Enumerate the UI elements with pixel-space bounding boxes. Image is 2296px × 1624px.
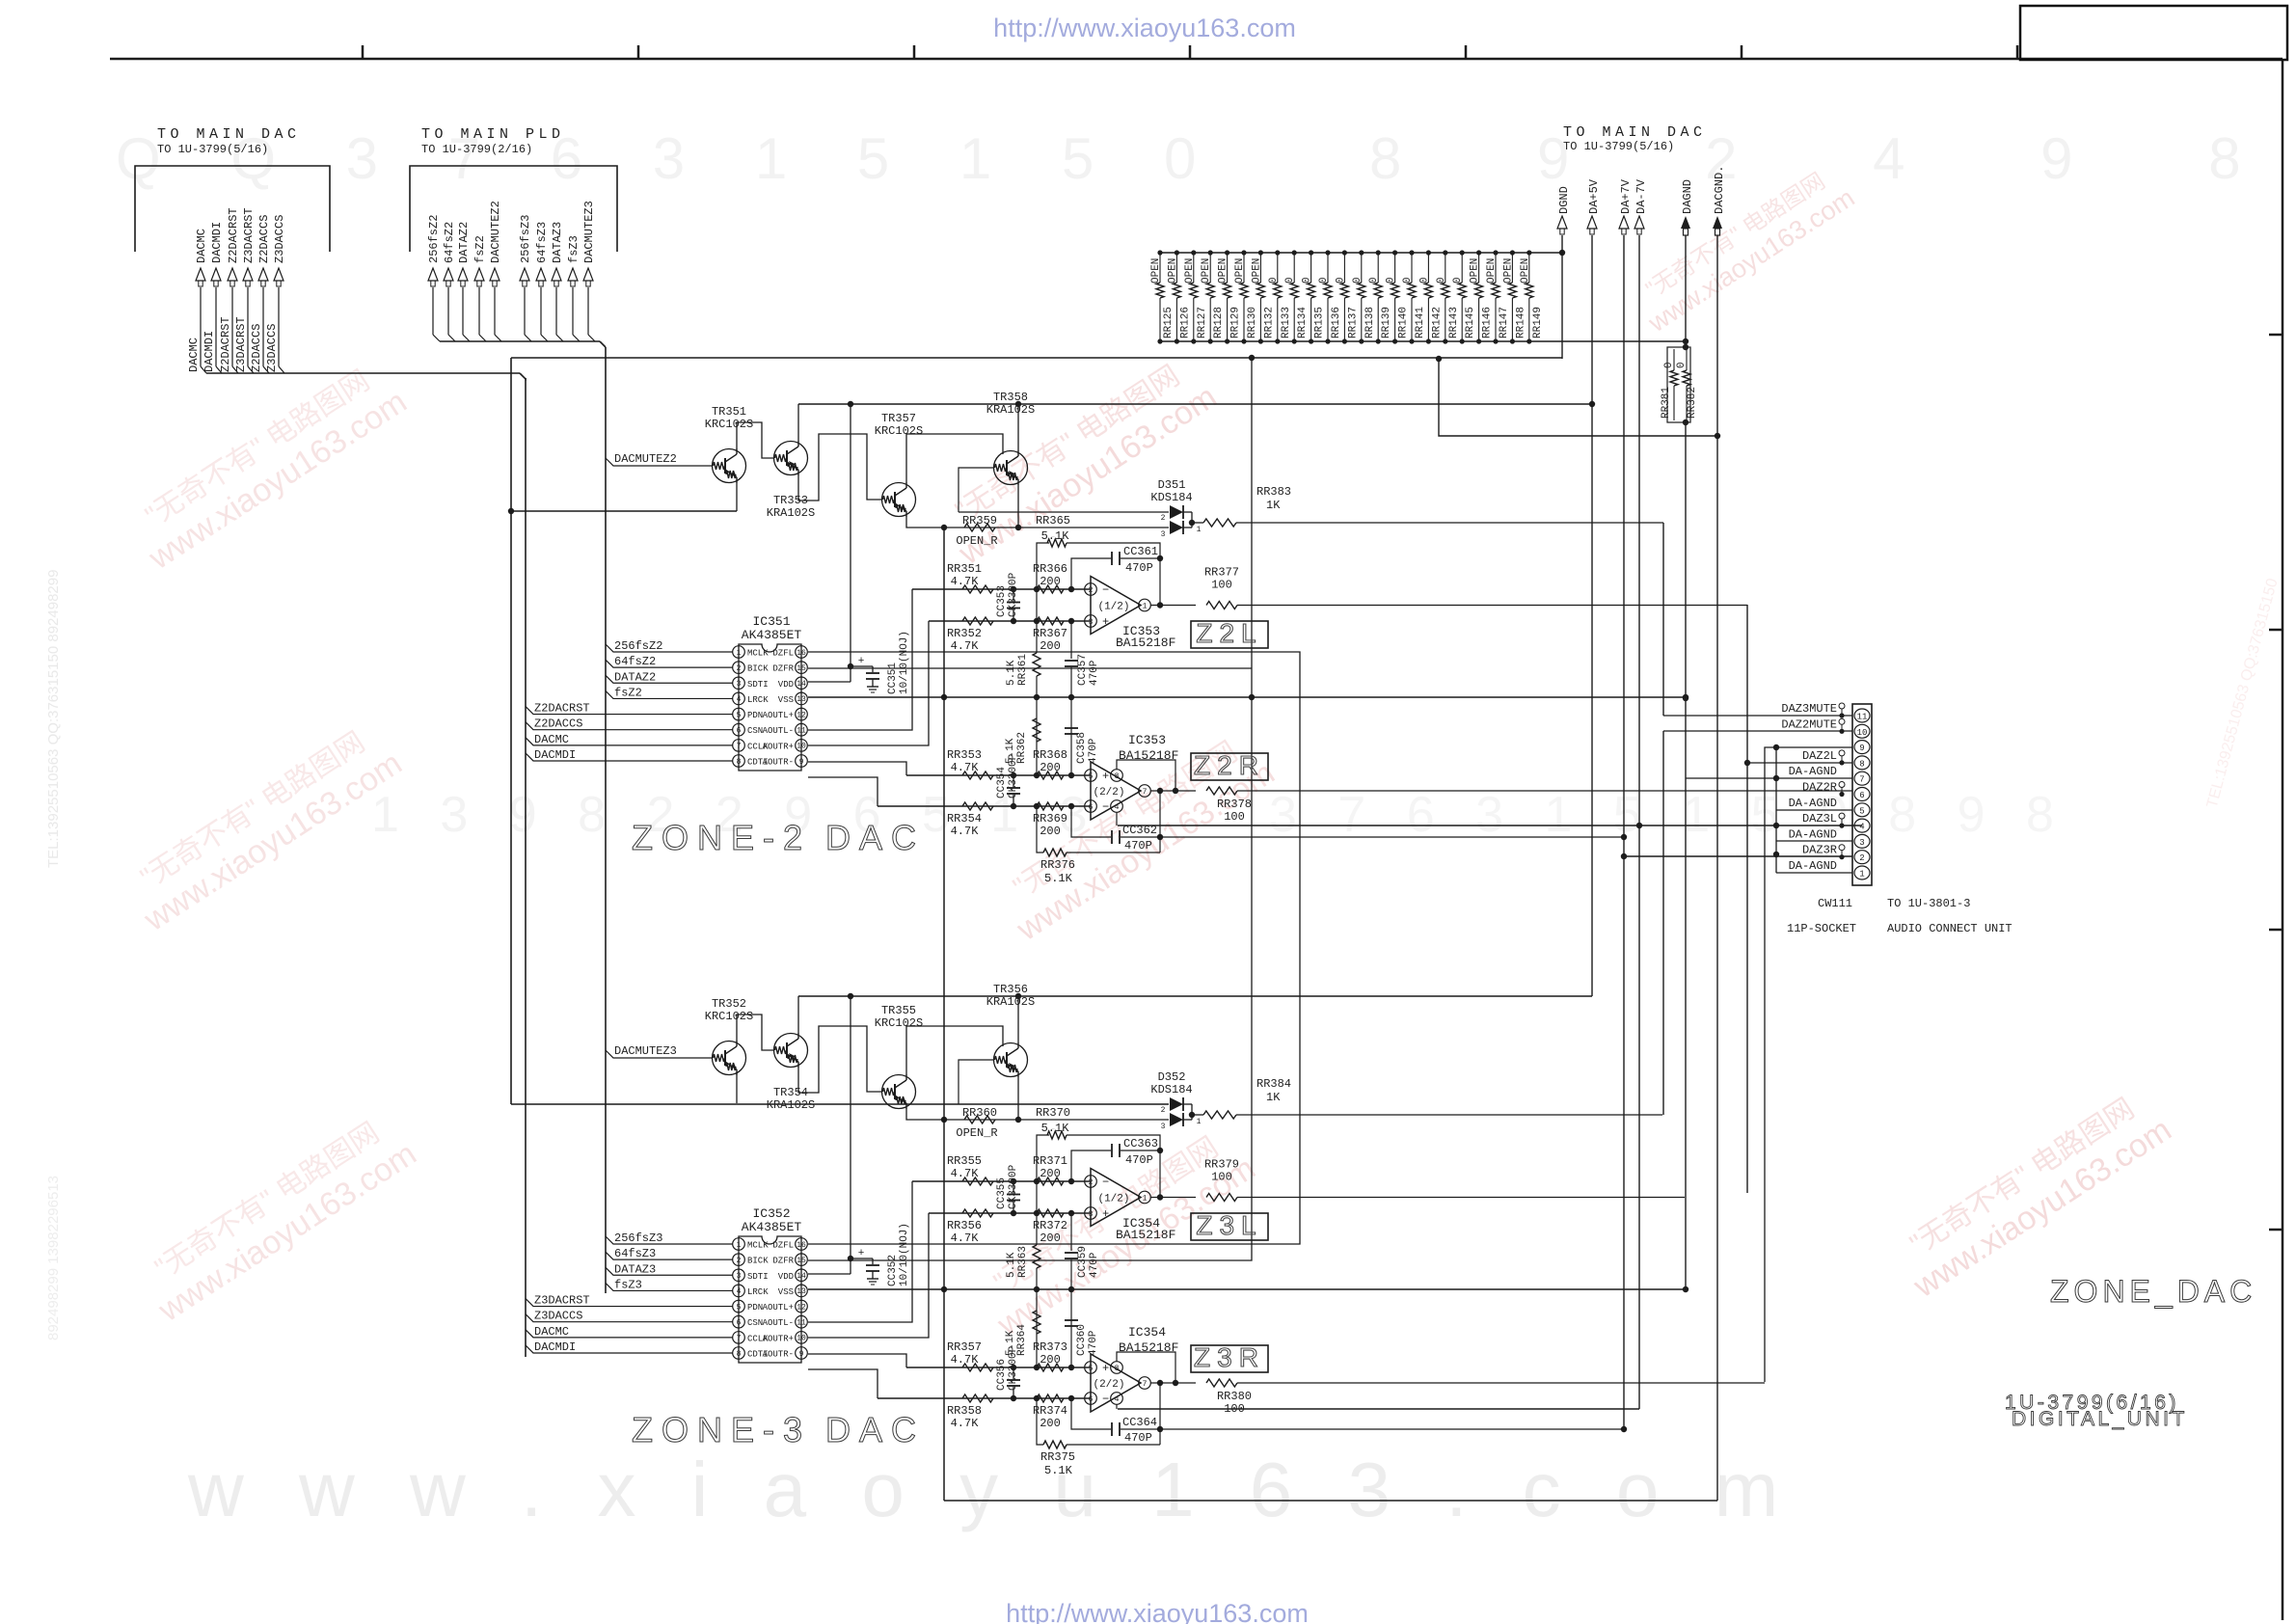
svg-text:RR138: RR138 xyxy=(1364,307,1376,338)
wire pin1 DA-AGND xyxy=(1776,872,1852,874)
svg-text:Z3DACRST: Z3DACRST xyxy=(234,316,248,372)
dot DACGND link top xyxy=(1436,356,1442,362)
wire bus PLD vertical xyxy=(605,347,607,1293)
dot x979 a xyxy=(941,525,947,530)
svg-text:RR383: RR383 xyxy=(1256,485,1291,499)
wire TR352 collector xyxy=(737,1015,773,1050)
svg-text:KRC102S: KRC102S xyxy=(705,418,753,431)
dot R b1 xyxy=(1034,803,1040,809)
label fsZ3 xyxy=(606,1278,733,1291)
svg-text:LRCK: LRCK xyxy=(747,695,769,705)
svg-text:DAGND: DAGND xyxy=(1681,179,1694,214)
svg-text:CC356: CC356 xyxy=(996,1359,1008,1391)
svg-text:16: 16 xyxy=(797,1241,806,1250)
svg-text:5: 5 xyxy=(737,1303,742,1312)
svg-text:200: 200 xyxy=(1040,1167,1061,1180)
wire filt2L bot xyxy=(929,620,1091,622)
svg-text:RR363: RR363 xyxy=(1017,1246,1029,1278)
svg-text:KRA102S: KRA102S xyxy=(986,403,1035,417)
capacitor CC351 10/10(NOJ) xyxy=(851,631,910,694)
wire DACGND link xyxy=(1439,359,1717,436)
svg-text:+: + xyxy=(1102,615,1109,629)
signal arrow fsZ3 xyxy=(567,235,581,335)
svg-text:2: 2 xyxy=(1161,1106,1166,1115)
svg-text:RR368: RR368 xyxy=(1033,748,1067,762)
svg-text:MCLK: MCLK xyxy=(747,649,769,659)
svg-text:http://www.xiaoyu163.com: http://www.xiaoyu163.com xyxy=(1006,1599,1309,1624)
svg-text:200: 200 xyxy=(1040,639,1061,653)
svg-text:RR356: RR356 xyxy=(947,1219,982,1232)
wire bus DAC vertical xyxy=(525,378,527,1357)
wire Z3L out xyxy=(1237,1197,1685,1199)
svg-text:470P: 470P xyxy=(1125,1153,1153,1167)
svg-text:4.7K: 4.7K xyxy=(951,761,980,774)
svg-text:64fsZ3: 64fsZ3 xyxy=(535,222,549,263)
svg-text:DAZ3MUTE: DAZ3MUTE xyxy=(1781,702,1837,716)
wire TR358 emitter xyxy=(1017,484,1019,528)
svg-text:ZONE-3: ZONE-3 xyxy=(632,1410,811,1449)
wire DGND trunk top xyxy=(511,357,1562,359)
wire pin4 V- xyxy=(1116,812,1118,826)
svg-text:RR369: RR369 xyxy=(1033,812,1067,826)
signal arrow DACMC xyxy=(195,229,208,366)
svg-text:BA15218F: BA15218F xyxy=(1116,636,1175,650)
power DA+7V xyxy=(1619,178,1633,1429)
svg-text:IC353: IC353 xyxy=(1128,733,1166,747)
svg-text:100: 100 xyxy=(1211,1171,1232,1184)
svg-text:3: 3 xyxy=(737,680,742,689)
right border ticks xyxy=(2269,335,2282,1230)
svg-text:OPEN_R: OPEN_R xyxy=(956,1126,997,1140)
wire mute tap xyxy=(959,468,993,512)
svg-text:DA-AGND: DA-AGND xyxy=(1789,859,1837,873)
svg-text:5.1K: 5.1K xyxy=(1006,660,1017,686)
wire TR354 collector xyxy=(797,996,799,1034)
dot bank-DGND xyxy=(1559,250,1565,256)
svg-text:3: 3 xyxy=(1089,1210,1094,1219)
svg-text:TR352: TR352 xyxy=(712,997,746,1011)
svg-text:0: 0 xyxy=(1436,277,1447,284)
signal arrow DATAZ3 xyxy=(551,222,564,335)
label DAZ3L pin4 xyxy=(1802,812,1845,828)
signal arrow fsZ2 xyxy=(473,235,487,335)
capacitor CC357 470P xyxy=(1065,621,1100,700)
wire VDD xyxy=(808,993,853,1274)
net box Z2L xyxy=(1191,618,1268,648)
svg-text:11: 11 xyxy=(797,727,806,736)
wire Z3R out xyxy=(1237,1382,1765,1384)
pin 6 CSN xyxy=(733,723,764,736)
wire VSS trunk xyxy=(808,694,1688,700)
dot DAGND-agnd2 xyxy=(1683,695,1688,701)
wire TR353 emitter xyxy=(798,434,881,501)
pin 5 PDN xyxy=(733,1300,764,1313)
connector CW111 body xyxy=(1852,704,1872,885)
wire Z2L out xyxy=(1237,605,1747,607)
svg-text:11: 11 xyxy=(1857,713,1868,722)
dot DA+5V xyxy=(1589,401,1595,407)
signal arrow 64fsZ3 xyxy=(535,222,549,335)
svg-text:+: + xyxy=(1102,770,1109,783)
svg-text:200: 200 xyxy=(1040,1353,1061,1367)
transistor TR352 KRC102S xyxy=(705,997,753,1075)
wire filt2L top xyxy=(912,588,1091,590)
svg-text:AOUTR+: AOUTR+ xyxy=(763,742,794,751)
resistor RR373 200 xyxy=(1033,1340,1067,1371)
svg-text:DIGITAL_UNIT: DIGITAL_UNIT xyxy=(2012,1408,2188,1430)
resistor RR376 5.1K xyxy=(1037,806,1160,885)
resistor RR146 OPEN xyxy=(1470,250,1494,343)
svg-text:5: 5 xyxy=(1859,806,1864,816)
resistor RR377 100 xyxy=(1204,566,1239,609)
svg-text:RR142: RR142 xyxy=(1431,307,1443,338)
svg-text:RR379: RR379 xyxy=(1204,1158,1239,1172)
resistor RR380 100 xyxy=(1206,1379,1252,1416)
label 256fsZ2 xyxy=(606,639,733,653)
resistor RR149 OPEN xyxy=(1520,250,1544,343)
pin 8 CDTI xyxy=(733,755,769,768)
svg-text:KRC102S: KRC102S xyxy=(705,1010,753,1023)
resistor RR369 200 xyxy=(1033,802,1067,838)
svg-text:RR132: RR132 xyxy=(1263,307,1275,338)
pin 14 VDD xyxy=(778,1269,808,1282)
svg-text:IC351: IC351 xyxy=(752,614,790,629)
svg-text:200: 200 xyxy=(1040,1417,1061,1430)
svg-text:DAC: DAC xyxy=(825,818,925,857)
pin 11 AOUTL- xyxy=(763,723,808,736)
label DATAZ2 xyxy=(606,670,733,684)
resistor RR382 0 xyxy=(1676,349,1698,420)
wire TR356 emitter xyxy=(1017,1076,1019,1120)
label fsZ2 xyxy=(606,686,733,699)
wire TR352 emitter xyxy=(736,1074,738,1103)
IC IC352 AK4385ET xyxy=(739,1206,801,1363)
svg-text:10: 10 xyxy=(797,1335,806,1343)
capacitor CC361 470P xyxy=(1071,545,1163,606)
wire mute tap xyxy=(959,1060,993,1104)
label Z3DACCS xyxy=(526,1310,733,1323)
svg-text:AOUTL-: AOUTL- xyxy=(763,1318,794,1328)
svg-text:0: 0 xyxy=(1676,362,1688,368)
svg-text:8 9 2 4 9 8 2 9 9: 8 9 2 4 9 8 2 9 9 xyxy=(1369,126,2296,191)
svg-text:4.7K: 4.7K xyxy=(951,575,980,588)
svg-text:(2/2): (2/2) xyxy=(1093,787,1124,798)
svg-text:ZONE-2: ZONE-2 xyxy=(632,818,811,857)
dot pin4 bus xyxy=(1773,823,1779,828)
resistor RR367 200 xyxy=(1033,617,1067,653)
dot R t1 xyxy=(1034,1365,1040,1370)
pin 7 CCLK xyxy=(733,1332,770,1344)
svg-text:5: 5 xyxy=(737,711,742,719)
resistor RR126 OPEN xyxy=(1167,250,1191,343)
label Z3DACRST xyxy=(526,1294,733,1308)
svg-text:RR352: RR352 xyxy=(947,627,982,640)
svg-text:TR355: TR355 xyxy=(881,1004,916,1017)
svg-text:2: 2 xyxy=(1161,514,1166,523)
svg-text:RR136: RR136 xyxy=(1331,307,1342,338)
label 64fsZ3 xyxy=(606,1247,733,1260)
svg-text:7: 7 xyxy=(1143,1380,1148,1389)
svg-text:DATAZ3: DATAZ3 xyxy=(551,222,564,263)
capacitor CC352 10/10(NOJ) xyxy=(851,1223,910,1286)
op-amp IC354 (2/2) xyxy=(1085,1325,1179,1412)
svg-text:0: 0 xyxy=(1368,277,1380,284)
label DA-AGND pin7 xyxy=(1789,765,1837,778)
svg-text:0: 0 xyxy=(1318,277,1330,284)
svg-text:DACMDI: DACMDI xyxy=(534,1340,576,1354)
svg-text:CSN: CSN xyxy=(747,1318,763,1328)
capacitor CC363 470P xyxy=(1071,1137,1163,1198)
dot TR358 collector xyxy=(1015,401,1021,407)
svg-text:DAZ3R: DAZ3R xyxy=(1802,844,1837,857)
svg-text:13: 13 xyxy=(797,695,806,704)
dot R t2 xyxy=(1068,1365,1074,1370)
connector pin 11 xyxy=(1854,709,1870,722)
resistor RR359 OPEN_R xyxy=(956,514,997,548)
svg-text:TEL:13925510563 QQ:376315150 8: TEL:13925510563 QQ:376315150 892498299 xyxy=(45,570,62,868)
svg-text:DACMC: DACMC xyxy=(187,338,201,372)
svg-text:64fsZ2: 64fsZ2 xyxy=(443,222,456,263)
svg-text:RR140: RR140 xyxy=(1398,307,1410,338)
svg-text:RR381: RR381 xyxy=(1661,387,1672,419)
svg-text:CC364: CC364 xyxy=(1122,1416,1157,1429)
svg-text:RR139: RR139 xyxy=(1381,307,1392,338)
svg-text:Z2DACRST: Z2DACRST xyxy=(219,316,232,372)
wire TR356 collector xyxy=(1017,996,1019,1043)
svg-text:DACMDI: DACMDI xyxy=(203,331,216,372)
svg-text:OPEN: OPEN xyxy=(1150,258,1162,284)
wire fb RR xyxy=(1037,536,1160,589)
svg-text:64fsZ2: 64fsZ2 xyxy=(614,655,656,668)
label Z2DACRST xyxy=(526,702,733,716)
svg-text:0: 0 xyxy=(1418,277,1430,284)
svg-text:1K: 1K xyxy=(1266,1091,1281,1104)
svg-text:11: 11 xyxy=(797,1319,806,1328)
svg-text:+: + xyxy=(1102,1362,1109,1375)
svg-text:256fsZ3: 256fsZ3 xyxy=(519,215,532,263)
resistor RR125 OPEN xyxy=(1150,250,1175,343)
op-amp IC354 (1/2) xyxy=(1085,1169,1176,1243)
svg-text:1: 1 xyxy=(1143,602,1148,610)
svg-text:RR148: RR148 xyxy=(1515,307,1526,338)
svg-text:AK4385ET: AK4385ET xyxy=(742,1220,802,1234)
svg-text:DACMC: DACMC xyxy=(195,229,208,263)
svg-text:+: + xyxy=(858,656,865,667)
svg-text:RR145: RR145 xyxy=(1465,307,1476,338)
svg-text:RR374: RR374 xyxy=(1033,1404,1067,1418)
resistor RR378 100 xyxy=(1206,787,1252,824)
svg-text:RR125: RR125 xyxy=(1163,307,1175,338)
svg-text:AOUTL+: AOUTL+ xyxy=(763,711,794,720)
wire TR357 collector xyxy=(906,434,1003,483)
dac bus wires xyxy=(201,366,284,373)
svg-text:Z3DACCS: Z3DACCS xyxy=(265,324,279,372)
wire DA+5V feed z3 xyxy=(798,995,1592,997)
resistor RR143 0 xyxy=(1436,250,1460,343)
svg-text:8: 8 xyxy=(1859,759,1864,769)
signal arrow Z3DACRST xyxy=(242,207,256,366)
transistor TR357 KRC102S xyxy=(875,412,923,517)
pin 3 SDTI xyxy=(733,1269,769,1282)
connector pin 6 xyxy=(1854,788,1870,801)
resistor RR364 5.1K xyxy=(1005,1289,1040,1367)
wire DAGND z3 xyxy=(1685,778,1687,1289)
svg-text:Z2DACCS: Z2DACCS xyxy=(257,215,271,263)
svg-text:2: 2 xyxy=(1859,853,1864,863)
svg-text:5.1K: 5.1K xyxy=(1044,872,1073,885)
svg-text:CC358: CC358 xyxy=(1076,732,1088,764)
svg-text:1: 1 xyxy=(737,649,742,658)
svg-text:13: 13 xyxy=(797,1287,806,1296)
svg-text:AOUTL+: AOUTL+ xyxy=(763,1303,794,1313)
signal arrow 64fsZ2 xyxy=(443,222,456,335)
net box Z3R xyxy=(1191,1342,1268,1372)
label DACMC xyxy=(526,733,733,746)
svg-text:RR370: RR370 xyxy=(1036,1106,1070,1120)
svg-text:KRA102S: KRA102S xyxy=(986,995,1035,1009)
resistor RR357 4.7K xyxy=(947,1340,993,1371)
svg-text:DGND: DGND xyxy=(1557,186,1571,214)
svg-text:SDTI: SDTI xyxy=(747,680,769,690)
svg-text:256fsZ2: 256fsZ2 xyxy=(427,215,441,263)
svg-text:14: 14 xyxy=(797,1272,806,1281)
svg-text:RR355: RR355 xyxy=(947,1154,982,1168)
wire DZF link2 xyxy=(808,667,1252,669)
signal arrow DATAZ2 xyxy=(457,222,471,335)
resistor RR381 0 xyxy=(1661,347,1690,422)
svg-text:OPEN: OPEN xyxy=(1251,258,1262,284)
resistor RR129 OPEN xyxy=(1218,250,1242,343)
svg-text:0: 0 xyxy=(1402,277,1414,284)
faint digits top xyxy=(116,126,2296,191)
pld bus corner xyxy=(600,341,606,347)
svg-text:CSN: CSN xyxy=(747,726,763,736)
svg-text:100: 100 xyxy=(1224,810,1245,824)
svg-text:AUDIO CONNECT UNIT: AUDIO CONNECT UNIT xyxy=(1887,922,2012,935)
wire DA+5V feed z2 xyxy=(798,403,1592,405)
dot pin2 DAZ3R xyxy=(1621,853,1627,859)
capacitor CC356 CK3300P xyxy=(996,1345,1020,1401)
svg-text:7: 7 xyxy=(737,1335,742,1343)
wire TR351 emitter xyxy=(736,482,738,511)
svg-text:RR357: RR357 xyxy=(947,1340,982,1354)
resistor RR128 OPEN xyxy=(1201,250,1225,343)
pin 16 DZFL xyxy=(772,1238,807,1251)
resistor RR133 0 xyxy=(1268,250,1292,343)
svg-text:3: 3 xyxy=(1161,530,1166,539)
dot R b2 xyxy=(1068,803,1074,809)
svg-text:RR128: RR128 xyxy=(1213,307,1225,338)
dot bank-DAGND xyxy=(1683,338,1688,344)
resistor RR371 200 xyxy=(1033,1154,1067,1185)
svg-text:4.7K: 4.7K xyxy=(951,1353,980,1367)
resistor RR372 200 xyxy=(1033,1209,1067,1245)
pin 11 AOUTL- xyxy=(763,1315,808,1328)
connector pin 9 xyxy=(1854,741,1870,754)
svg-text:DA+7V: DA+7V xyxy=(1619,178,1633,214)
resistor RR137 0 xyxy=(1335,250,1359,343)
dot L t2 xyxy=(1068,1178,1074,1184)
resistor RR383 1K xyxy=(1192,485,1663,527)
pin 12 AOUTL+ xyxy=(763,1300,808,1313)
svg-text:4: 4 xyxy=(737,695,742,704)
svg-text:200: 200 xyxy=(1040,575,1061,588)
svg-text:Z2DACRST: Z2DACRST xyxy=(227,207,240,263)
diode D352 KDS184 xyxy=(1150,1070,1201,1131)
dot RR38x top xyxy=(1683,344,1688,350)
capacitor CC360 470P xyxy=(1065,1289,1099,1367)
svg-text:RR358: RR358 xyxy=(947,1404,982,1418)
dot pin2 bus xyxy=(1773,852,1779,857)
svg-text:RR377: RR377 xyxy=(1204,566,1239,580)
svg-text:0: 0 xyxy=(1352,277,1364,284)
wire x979 column xyxy=(943,528,945,1501)
pin 14 VDD xyxy=(778,677,808,690)
wire pin10 DAZ2MUTE xyxy=(1663,730,1852,732)
wire DZF link1 xyxy=(808,652,1300,1244)
wire AOUTR- xyxy=(808,1369,878,1398)
svg-text:1: 1 xyxy=(1143,1194,1148,1203)
pin 4 LRCK xyxy=(733,692,770,705)
transistor TR353 KRA102S xyxy=(767,442,815,521)
resistor RR130 OPEN xyxy=(1234,250,1258,343)
faint digits mid xyxy=(371,787,1101,843)
svg-text:DAZ2R: DAZ2R xyxy=(1802,781,1837,795)
pin 4 LRCK xyxy=(733,1285,770,1297)
svg-text:100: 100 xyxy=(1211,579,1232,592)
svg-text:KRA102S: KRA102S xyxy=(767,1098,815,1112)
wire AOUTL+ xyxy=(808,1181,912,1322)
svg-text:8: 8 xyxy=(737,1350,742,1359)
svg-text:RR134: RR134 xyxy=(1297,307,1309,338)
svg-text:RR366: RR366 xyxy=(1033,562,1067,576)
transistor TR358 KRA102S xyxy=(986,391,1035,485)
svg-text:4.7K: 4.7K xyxy=(951,825,980,838)
svg-text:fsZ2: fsZ2 xyxy=(614,686,642,699)
svg-text:TO 1U-3801-3: TO 1U-3801-3 xyxy=(1887,897,1970,910)
svg-text:PDN: PDN xyxy=(747,1303,763,1313)
pin 8 CDTI xyxy=(733,1347,769,1360)
wire pin3 DA-AGND xyxy=(1776,840,1852,842)
dot TR356 emitter xyxy=(1015,1117,1021,1123)
svg-text:RR143: RR143 xyxy=(1448,307,1460,338)
capacitor CC358 470P xyxy=(1065,697,1099,775)
wire TR354 emitter xyxy=(798,1026,881,1093)
dac bus xyxy=(206,372,520,374)
wire pin2 DAZ3R xyxy=(1624,855,1852,857)
svg-text:RR137: RR137 xyxy=(1347,307,1359,338)
resistor RR366 200 xyxy=(1033,562,1067,593)
label DACMC xyxy=(526,1325,733,1339)
resistor RR360 OPEN_R xyxy=(956,1106,997,1140)
signal arrow Z2DACCS xyxy=(257,215,271,366)
svg-text:3: 3 xyxy=(1161,1123,1166,1131)
connector pin 10 xyxy=(1854,724,1870,738)
pin 2 BICK xyxy=(733,662,770,674)
svg-text:1: 1 xyxy=(1197,526,1202,534)
svg-text:4.7K: 4.7K xyxy=(951,1232,980,1245)
wire AOUTL+ xyxy=(808,589,912,730)
svg-text:fsZ3: fsZ3 xyxy=(567,235,581,263)
transistor TR355 KRC102S xyxy=(875,1004,923,1109)
wire TR355 emitter xyxy=(906,1108,1169,1120)
svg-text:OPEN_R: OPEN_R xyxy=(956,534,997,548)
wire filt3R top xyxy=(906,1367,1091,1368)
connector pin 3 xyxy=(1854,834,1870,848)
svg-text:(1/2): (1/2) xyxy=(1097,602,1129,613)
svg-text:CC363: CC363 xyxy=(1123,1137,1158,1150)
wire TR358 collector xyxy=(1017,404,1019,451)
